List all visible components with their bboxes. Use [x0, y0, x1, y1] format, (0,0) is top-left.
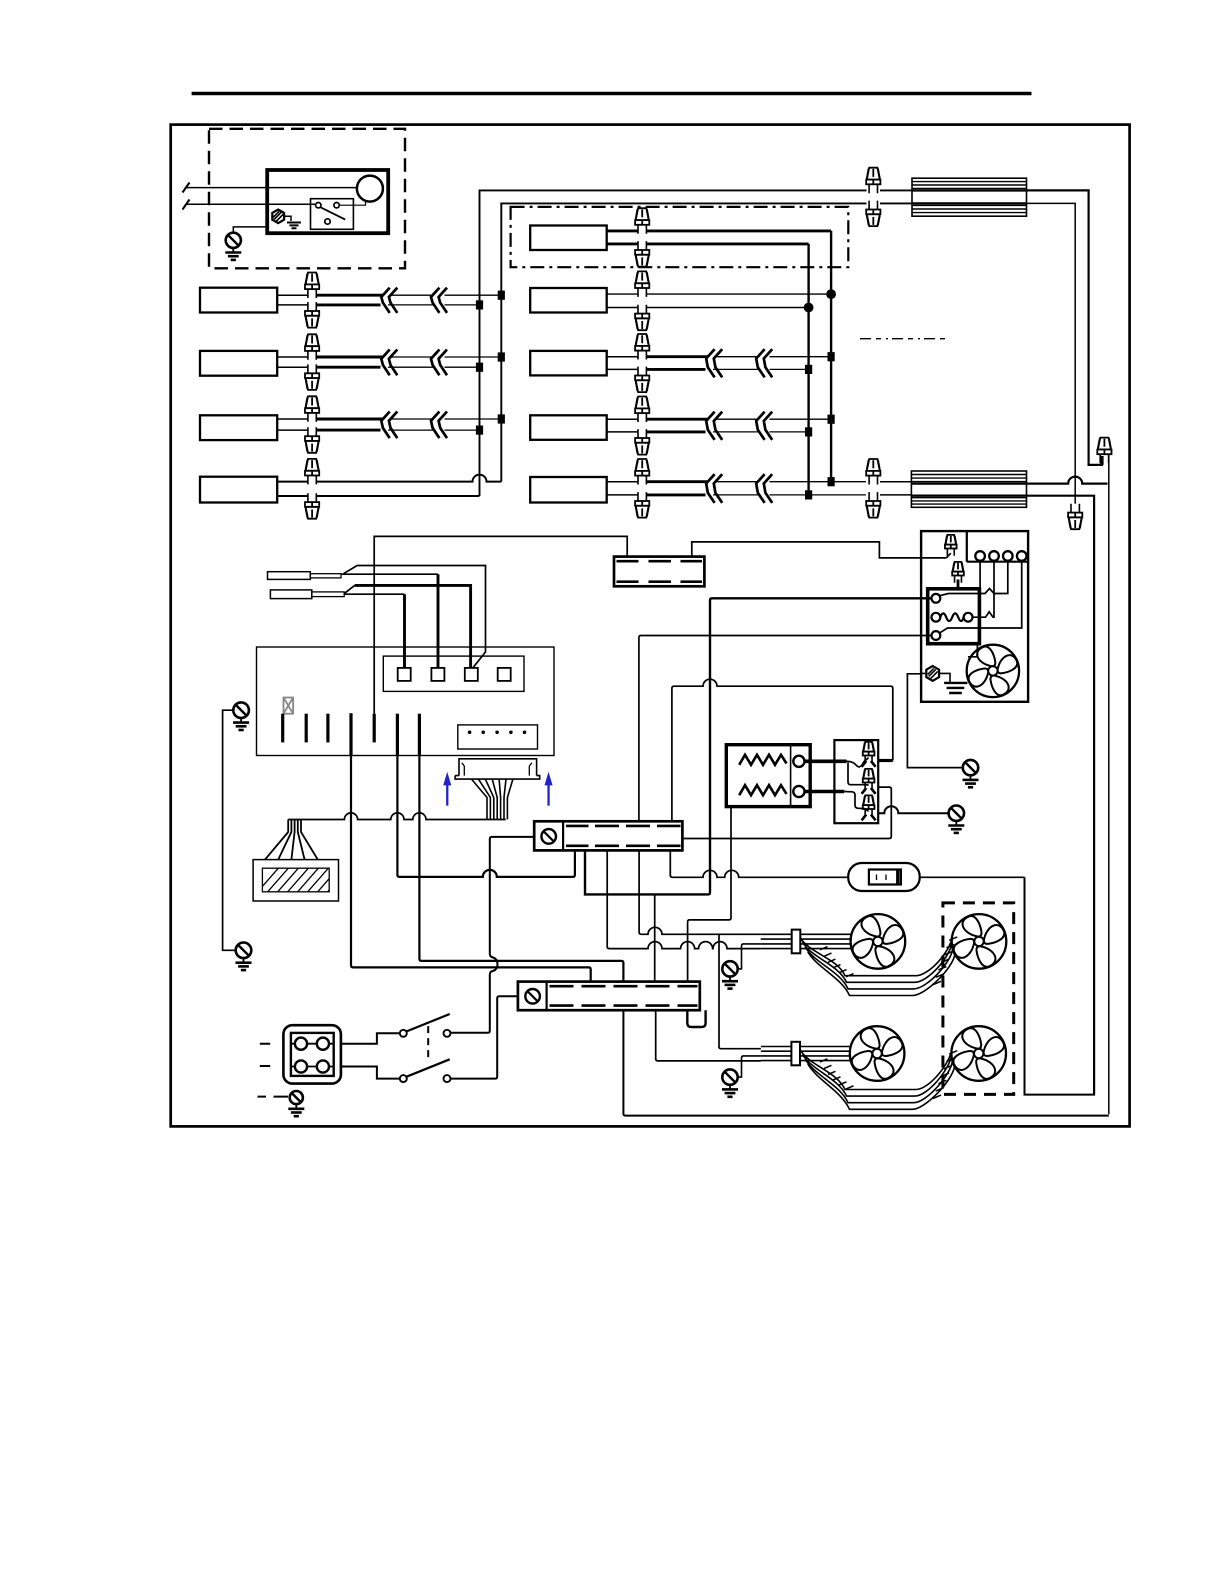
- splice chevrons MB3: [706, 412, 714, 440]
- board terminal T1: [398, 668, 411, 681]
- fan row 1 fan A: [851, 914, 906, 969]
- wire CN1 to harness (hops): [288, 813, 506, 820]
- connector pair LB3: [305, 396, 319, 422]
- middle bus wire B: [830, 231, 832, 482]
- board connector 6dot: [458, 725, 538, 749]
- heater terminal 2: [793, 786, 804, 797]
- left bus wire A: [479, 190, 481, 496]
- junction dots MB1: [826, 289, 836, 299]
- cable CN1 fan-in: [265, 820, 288, 860]
- heater terminal 1: [793, 756, 804, 767]
- connector J3 to relay: [952, 562, 964, 583]
- junction squares LB2: [498, 352, 505, 361]
- wire FC2 lead 2: [344, 593, 404, 595]
- relay contact C1: [932, 594, 941, 603]
- fan row 2 cable sweep to fan B: [800, 1050, 952, 1090]
- wire MB4 bottom lead: [607, 494, 647, 496]
- connector CB1-J3: [863, 795, 875, 816]
- power entry module dashed enclosure: [209, 129, 405, 268]
- wire F2 screw to disconnect switch (vertical hop): [451, 837, 535, 1033]
- connector J-up right riser: [1097, 438, 1111, 464]
- component box LB4: [200, 477, 277, 503]
- wire HG1 bottom right riser: [1027, 203, 1076, 509]
- relay wire C4 to T2: [973, 561, 995, 617]
- wire MB4 top lead: [607, 481, 647, 483]
- switch S1 contacts: [316, 203, 321, 208]
- supply line L1 wire: [186, 187, 357, 189]
- plug pin 1: [462, 763, 465, 776]
- terminal block F3: [518, 982, 700, 1011]
- wire MB2 bottom lead: [607, 368, 647, 370]
- component box LB3: [200, 415, 277, 440]
- connector pair LB4: [305, 459, 319, 485]
- splice chevrons MB4: [706, 474, 714, 503]
- relay contact C4: [964, 613, 973, 622]
- chassis bolt ground: [272, 210, 284, 224]
- earth screw ground G6: [288, 1091, 304, 1116]
- relay switch S1 box: [311, 199, 354, 230]
- earth screw ground G2 at board: [233, 702, 249, 730]
- component box LB1: [200, 288, 277, 313]
- wire F2 pin2 down: [607, 850, 761, 948]
- supply line L2 wire: [186, 203, 316, 205]
- relay overload element wave: [940, 613, 963, 621]
- wire MB0 bottom lead: [607, 242, 809, 245]
- wire LB4 top lead with hop: [277, 475, 501, 482]
- wire MB0 top lead: [607, 229, 831, 232]
- board terminal T3: [465, 668, 478, 681]
- component box MB0: [530, 226, 607, 251]
- component box MB4: [530, 477, 607, 503]
- compressor terminal 1: [975, 551, 985, 561]
- compressor relay box: [928, 589, 980, 644]
- connector pair top feed: [866, 168, 880, 194]
- wire FC1 lead 1: [344, 566, 486, 669]
- wire HG2 top lead to riser (hop): [1027, 477, 1108, 484]
- board terminal T4: [498, 668, 511, 681]
- earth screw ground G5: [948, 806, 964, 833]
- wire MB1 top lead: [607, 293, 831, 295]
- fan row 2 fan A: [850, 1026, 905, 1081]
- terminal strip on board: [383, 656, 524, 691]
- connector pair MB0: [635, 208, 649, 234]
- fan row 1 fan B: [952, 914, 1007, 969]
- heater lead 1 (bold): [805, 759, 847, 763]
- board pin long: [349, 713, 352, 755]
- earth screw ground G8: [722, 1069, 738, 1096]
- compressor terminal 2: [989, 551, 999, 561]
- field cable FC1: [268, 572, 311, 580]
- control board PCB: [257, 647, 555, 756]
- fuse marker on board: [284, 698, 294, 714]
- wire board pin to F3 left run: [351, 756, 591, 982]
- terminal block F1: [614, 557, 704, 587]
- board pin: [281, 714, 284, 743]
- left bus wire B: [500, 203, 502, 481]
- wire MB2 top lead: [607, 356, 647, 358]
- motor M1: [357, 176, 383, 202]
- wire bus A to HG1 top: [480, 190, 867, 191]
- earth screw ground G4: [963, 760, 979, 787]
- blue arrow left: [443, 772, 451, 806]
- evaporator dash-dot enclosure: [511, 207, 849, 267]
- wire F1 to condenser box: [692, 542, 947, 558]
- junction squares LB3: [498, 414, 505, 423]
- wire FC1 lead 2: [341, 573, 438, 575]
- blue arrow right: [545, 772, 553, 806]
- rocker switch RS1: [848, 863, 920, 891]
- wire CB1-J2 to F2 right: [682, 787, 891, 838]
- wire MB3 top lead: [607, 418, 647, 420]
- heater lead 2 (bold): [805, 790, 845, 794]
- wire LB2 top lead: [277, 356, 318, 358]
- wire SW1 pole2 to F3 screw: [451, 996, 518, 1078]
- junction squares MB2: [828, 352, 835, 361]
- wire board pin to F3 right run: [419, 756, 623, 982]
- disconnect switch SW1 pole 2: [400, 1075, 407, 1082]
- switch tie bar dashed: [427, 1026, 429, 1059]
- heater top jumper to F3: [688, 807, 731, 982]
- field cable FC2: [270, 590, 311, 599]
- wire bus B to HG1 bottom: [501, 203, 866, 204]
- wire CB1-J3 to ground screw (hop): [878, 806, 949, 813]
- plug pin 2: [529, 763, 532, 776]
- relay wire C3 to fan: [968, 644, 977, 657]
- junction squares LB1: [498, 291, 505, 300]
- wire F2 pin3 down: [639, 850, 761, 934]
- wire ground to box: [233, 227, 267, 233]
- CB1 internal wires: [847, 758, 869, 767]
- heater grid HG2: [911, 471, 1026, 507]
- power terminal block TB1: [283, 1025, 341, 1083]
- wire LB1 bottom lead: [277, 304, 318, 306]
- board terminal T2: [431, 668, 444, 681]
- branch down to F3: [654, 894, 656, 981]
- wire LB3 top lead: [277, 418, 318, 420]
- board pin long: [418, 714, 421, 756]
- component box MB3: [530, 415, 607, 440]
- earth screw ground G7: [722, 961, 738, 988]
- wire FC2 lead 1: [344, 585, 355, 593]
- wire switch to motor: [339, 202, 365, 206]
- switch S1 blade: [321, 207, 345, 219]
- splice chevrons LB2: [381, 350, 389, 376]
- TB1 terminals: [291, 1044, 334, 1067]
- wire into connector box CB1: [878, 759, 893, 762]
- disconnect switch SW1 pole 1: [400, 1030, 407, 1037]
- wire F3 to lower fan row: [656, 1010, 761, 1061]
- relay contact C2: [932, 613, 941, 622]
- board pin: [326, 714, 329, 743]
- connector pair MB2: [635, 334, 649, 360]
- wire compressor ground to screw: [907, 674, 962, 768]
- crankcase heater box: [726, 745, 810, 807]
- wire bottom loop to rocker: [1025, 877, 1095, 1094]
- middle bus wire A: [807, 244, 809, 495]
- wire relay C3 feed: [639, 636, 932, 822]
- junction squares MB3: [828, 415, 835, 424]
- terminal block F2: [534, 821, 682, 850]
- part number dash line: [860, 338, 946, 340]
- heater element 2 zigzag: [739, 785, 786, 795]
- harness fan-out wires: [472, 779, 488, 819]
- connector pair LB2: [305, 334, 319, 360]
- title rule: [192, 92, 1032, 96]
- wire F2 pin4 to rocker switch (hops): [670, 850, 848, 877]
- earth screw ground G3: [236, 943, 252, 971]
- wire board pin to F2 (hop): [397, 756, 575, 877]
- connector pair MB1: [635, 271, 649, 297]
- wire rocker to right loop: [920, 876, 1025, 878]
- condenser fan FM5: [967, 645, 1019, 697]
- wire T4 to relay: [940, 561, 1022, 633]
- wire board to F1: [374, 536, 627, 713]
- fan row 2 cable band: [761, 1046, 851, 1048]
- heater element 1 zigzag: [739, 755, 786, 765]
- wire riser drop to bottom bus: [1108, 455, 1110, 1114]
- connector box CB1: [834, 740, 878, 823]
- diagram border frame: [171, 125, 1130, 1127]
- splice chevrons LB3: [381, 412, 389, 439]
- component box LB2: [200, 351, 277, 376]
- wire F2 to heater connector (hop): [672, 679, 893, 821]
- wire HG2 bottom lead to right drop: [1027, 496, 1095, 1093]
- component box MB1: [530, 288, 607, 313]
- relay wire C1 to T3: [939, 561, 1008, 596]
- power entry module box: [267, 170, 388, 233]
- wire MB1 bottom lead: [607, 307, 809, 309]
- condenser unit enclosure: [921, 531, 1028, 702]
- compressor terminal 4: [1017, 551, 1027, 561]
- splice chevrons MB2: [706, 349, 714, 377]
- wire LB4 bottom lead: [277, 495, 479, 497]
- board pin: [305, 714, 308, 743]
- wire TB1 to switch pole 2: [341, 1067, 400, 1079]
- connector pair MB3: [635, 397, 649, 423]
- connector J-down right riser: [1068, 504, 1082, 530]
- terminal shelf: [967, 531, 1028, 562]
- compressor case bolt ground: [926, 666, 939, 681]
- fan row 1 cable sweep to fan B: [800, 937, 952, 975]
- wire T1 stub: [979, 561, 981, 589]
- wire G2 to G3: [223, 710, 236, 950]
- condenser fans dashed enclosure: [943, 903, 1014, 1095]
- wire relay C1 feed: [585, 598, 932, 894]
- fan row 2 fan B: [951, 1026, 1006, 1081]
- wire TB1 to switch pole 1: [341, 1033, 400, 1043]
- harness plug housing: [455, 759, 540, 779]
- wire LB1 top lead: [277, 294, 318, 296]
- board pin (input wire): [373, 714, 376, 743]
- wire LB3 bottom lead: [277, 429, 318, 431]
- heater grid HG1: [912, 178, 1027, 216]
- fan row 1 cable band: [761, 933, 852, 935]
- junction squares MB4: [828, 477, 835, 486]
- splice chevrons LB1: [381, 288, 389, 313]
- compressor terminal 3: [1003, 551, 1013, 561]
- connector CB1-J1: [863, 742, 875, 763]
- relay contact C3: [932, 631, 941, 640]
- wire MB3 bottom lead: [607, 431, 647, 433]
- branch to lower fan row: [719, 934, 761, 1048]
- wire break slashes: [183, 183, 190, 210]
- connector pair MB4 to HG2: [866, 459, 880, 485]
- CB1 connector leg flares: [862, 761, 876, 767]
- hatched connector CN1: [253, 860, 338, 901]
- supply stub dashes: [260, 1044, 270, 1066]
- wire HG1 top right riser: [1027, 190, 1102, 465]
- component box MB2: [530, 351, 607, 376]
- connector pair LB1: [305, 273, 319, 299]
- connector CB1-J2: [863, 769, 875, 790]
- earth screw ground G1: [225, 233, 241, 260]
- connector pair MB4: [635, 459, 649, 485]
- wire LB2 bottom lead: [277, 366, 318, 368]
- connector J2 in condenser box: [945, 535, 957, 556]
- wire F3 to bottom bus: [623, 1010, 1108, 1115]
- F3 bypass hook: [687, 1010, 705, 1027]
- board pin long: [396, 714, 399, 756]
